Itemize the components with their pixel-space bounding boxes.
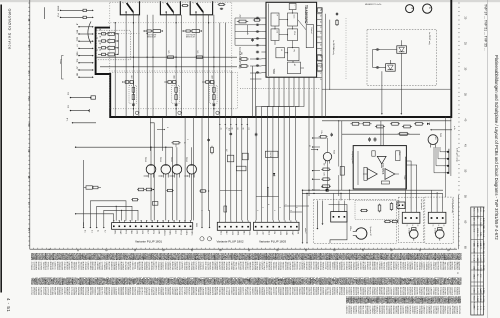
- svg-text:481: 481: [434, 137, 436, 140]
- svg-text:Dem: Dem: [292, 15, 294, 19]
- svg-text:1568: 1568: [173, 75, 175, 79]
- amp inner block vref: [372, 151, 375, 156]
- svg-text:7-4: 7-4: [476, 298, 478, 301]
- svg-text:D540471: D540471: [129, 287, 131, 296]
- speaker feed line lower: [302, 192, 443, 194]
- svg-text:T129073: T129073: [39, 287, 41, 296]
- svg-text:D078996: D078996: [197, 262, 199, 271]
- svg-text:D684158: D684158: [425, 287, 427, 296]
- svg-text:T207287: T207287: [42, 262, 44, 271]
- svg-text:C143118: C143118: [425, 306, 427, 315]
- svg-text:C236233: C236233: [173, 287, 175, 296]
- svg-text:R320794: R320794: [319, 287, 321, 296]
- svg-text:R609491: R609491: [124, 287, 126, 296]
- svg-text:T394782: T394782: [420, 287, 422, 296]
- svg-text:R711460: R711460: [401, 287, 403, 296]
- svg-text:C792421: C792421: [202, 262, 204, 271]
- svg-text:D297023: D297023: [270, 262, 272, 271]
- pin table band 2 row A: [30, 278, 461, 286]
- svg-text:L931783: L931783: [131, 262, 133, 271]
- svg-text:D187151: D187151: [312, 262, 314, 271]
- svg-text:L711075: L711075: [42, 287, 44, 296]
- svg-text:SW15: SW15: [190, 230, 192, 235]
- svg-text:KOMB: KOMB: [476, 228, 478, 234]
- svg-text:B05: B05: [479, 290, 481, 293]
- svg-text:2-4: 2-4: [473, 258, 475, 261]
- svg-text:12: 12: [225, 128, 227, 130]
- svg-text:T113719: T113719: [180, 287, 182, 296]
- svg-text:D119852: D119852: [89, 262, 91, 271]
- svg-text:SDA: SDA: [76, 52, 79, 57]
- right frame segment: [458, 195, 460, 249]
- arrow into bus x338: [338, 121, 340, 122]
- svg-text:600 Ohm: 600 Ohm: [322, 187, 329, 189]
- svg-text:L428146: L428146: [173, 262, 175, 271]
- svg-text:C630170: C630170: [307, 287, 309, 296]
- svg-text:D985012: D985012: [110, 262, 112, 271]
- svg-text:D939471: D939471: [277, 287, 279, 296]
- resistor R1566: [131, 199, 132, 201]
- svg-text:T901073: T901073: [293, 287, 295, 296]
- long rail B to connector: [75, 147, 172, 220]
- junction dots on feed lines: [349, 190, 350, 191]
- svg-text:C549816: C549816: [145, 287, 147, 296]
- svg-text:1801: 1801: [195, 223, 197, 227]
- svg-text:ED2: ED2: [479, 274, 481, 277]
- svg-text:R090048: R090048: [390, 306, 392, 315]
- svg-text:N10: N10: [228, 128, 230, 131]
- svg-text:L403753: L403753: [169, 262, 171, 271]
- IC inner block: demod: [288, 13, 298, 26]
- svg-text:R454185: R454185: [171, 262, 173, 271]
- svg-text:L221677: L221677: [242, 287, 244, 296]
- svg-text:C518932: C518932: [143, 262, 145, 271]
- svg-text:for 2 speakers: for 2 speakers: [420, 199, 423, 210]
- resistor R613: [375, 126, 377, 128]
- left ruler line: [29, 0, 31, 249]
- svg-text:C485146: C485146: [434, 306, 436, 315]
- svg-text:R506015: R506015: [284, 262, 286, 271]
- IC inner block: video: [271, 29, 279, 41]
- svg-text:D958154: D958154: [392, 306, 394, 315]
- svg-text:L357389: L357389: [444, 287, 446, 296]
- svg-text:L478652: L478652: [180, 262, 182, 271]
- svg-text:D017434: D017434: [204, 262, 206, 271]
- svg-text:RT8: RT8: [152, 230, 154, 233]
- wire below bus x150: [149, 117, 151, 151]
- arrow left w7a: [431, 129, 452, 131]
- svg-text:C599516: C599516: [58, 262, 60, 271]
- svg-text:C127576: C127576: [369, 306, 371, 315]
- svg-text:T260: T260: [272, 69, 275, 75]
- svg-text:D169457: D169457: [380, 287, 382, 296]
- svg-text:T517151: T517151: [326, 287, 328, 296]
- svg-text:T005359: T005359: [413, 306, 415, 315]
- svg-text:R461087: R461087: [399, 262, 401, 271]
- svg-text:C995541: C995541: [371, 306, 373, 315]
- dashed box: speaker B: [425, 197, 453, 243]
- svg-text:L687808: L687808: [230, 262, 232, 271]
- svg-text:T340016: T340016: [150, 287, 152, 296]
- termination unit 1569: [203, 81, 204, 83]
- svg-text:RT13: RT13: [179, 230, 181, 234]
- svg-text:F 4-6: F 4-6: [482, 266, 484, 270]
- svg-text:T966274: T966274: [133, 287, 135, 296]
- svg-text:D331921: D331921: [347, 306, 349, 315]
- svg-text:MUTE: MUTE: [269, 152, 271, 158]
- long rail A (IF) to connector: [150, 123, 154, 221]
- resistor R615: [402, 126, 404, 128]
- resistor R1605 MUTE: [265, 151, 278, 157]
- svg-text:11: 11: [319, 38, 321, 40]
- svg-text:C559550: C559550: [159, 262, 161, 271]
- svg-text:TDA7056B: TDA7056B: [381, 163, 384, 175]
- resistor R614: [390, 123, 392, 125]
- svg-text:D861089: D861089: [91, 262, 93, 271]
- svg-text:C830350: C830350: [455, 306, 457, 315]
- svg-text:T212799: T212799: [249, 287, 251, 296]
- svg-text:C647826: C647826: [39, 262, 41, 271]
- resistor R175: [166, 56, 168, 58]
- svg-text:D733371: D733371: [77, 262, 79, 271]
- wire bundle: switch outputs down to bus: [115, 15, 225, 117]
- svg-text:R889726: R889726: [373, 262, 375, 271]
- svg-text:L514568: L514568: [300, 262, 302, 271]
- svg-text:T803944: T803944: [98, 262, 100, 271]
- capacitor C632: [331, 133, 333, 134]
- resistor R182: [218, 4, 219, 6]
- svg-text:C580569: C580569: [352, 262, 354, 271]
- svg-text:L331367: L331367: [246, 262, 248, 271]
- svg-text:D746545: D746545: [234, 287, 236, 296]
- svg-text:Tuner: Tuner: [59, 59, 61, 64]
- IC inner left rail: [268, 4, 270, 77]
- svg-text:T461122: T461122: [51, 262, 53, 271]
- svg-text:WS4: WS4: [237, 231, 239, 235]
- svg-text:GN3: GN3: [231, 231, 233, 235]
- connector PLUP 1803 row: [254, 222, 300, 230]
- svg-text:R274535: R274535: [150, 262, 152, 271]
- wires from IC left column down to bus: [252, 66, 254, 117]
- svg-text:R089461: R089461: [366, 262, 368, 271]
- svg-text:C976879: C976879: [328, 287, 330, 296]
- resistor R1569b: [199, 190, 200, 192]
- svg-text:GN1: GN1: [256, 231, 258, 235]
- svg-text:C306475: C306475: [430, 262, 432, 271]
- svg-text:C986350: C986350: [37, 287, 39, 296]
- svg-text:L091560: L091560: [333, 287, 335, 296]
- resistor R1608: [224, 206, 227, 212]
- pin reference circles above bus: [135, 111, 219, 114]
- junction dots on rails: [133, 57, 215, 68]
- svg-text:T620: T620: [439, 133, 441, 137]
- svg-text:T637318: T637318: [84, 287, 86, 296]
- svg-text:B2: B2: [456, 282, 458, 284]
- svg-text:bl: bl: [411, 225, 413, 227]
- svg-text:L728472: L728472: [364, 287, 366, 296]
- svg-text:F 4-G09: F 4-G09: [482, 296, 484, 302]
- svg-text:bn: bn: [431, 225, 433, 227]
- svg-text:c: c: [202, 238, 204, 239]
- reference table columns: [471, 207, 484, 315]
- reference bubble CO1: [318, 8, 323, 13]
- svg-text:65: 65: [464, 246, 467, 249]
- small box K1567: [153, 202, 158, 206]
- svg-text:L270475: L270475: [260, 262, 262, 271]
- svg-text:SB: SB: [242, 128, 244, 130]
- reference table texts: [473, 207, 484, 311]
- resistor R633: [321, 168, 323, 170]
- resistor R1604: [242, 153, 248, 160]
- svg-text:R230470: R230470: [352, 287, 354, 296]
- svg-text:L890863: L890863: [192, 287, 194, 296]
- svg-text:R905587: R905587: [378, 287, 380, 296]
- svg-text:F2: F2: [456, 262, 458, 264]
- svg-text:C114050: C114050: [115, 287, 117, 296]
- svg-text:RT3: RT3: [125, 230, 127, 233]
- IC internal connection arrows: [275, 10, 306, 68]
- svg-text:8: 8: [166, 127, 168, 128]
- svg-text:D518946: D518946: [397, 287, 399, 296]
- svg-text:R598335: R598335: [284, 287, 286, 296]
- svg-text:D084642: D084642: [446, 287, 448, 296]
- svg-text:gn: gn: [417, 225, 419, 227]
- svg-text:BESTÜCKT: BESTÜCKT: [186, 35, 195, 38]
- svg-text:F 4-63/TV: F 4-63/TV: [479, 255, 481, 263]
- amp inner resistor left: [364, 167, 367, 180]
- svg-text:T910372: T910372: [79, 262, 81, 271]
- svg-text:L609319: L609319: [286, 287, 288, 296]
- svg-text:+5V: +5V: [76, 66, 78, 70]
- svg-text:F 4-ED: F 4-ED: [479, 207, 481, 213]
- svg-text:AU3: AU3: [267, 231, 270, 235]
- svg-text:30: 30: [190, 249, 193, 252]
- svg-text:2: 2: [256, 210, 258, 211]
- diode D1607: [273, 173, 275, 176]
- svg-text:D398066: D398066: [314, 262, 316, 271]
- svg-text:13: 13: [319, 26, 321, 28]
- wires to IC lower left pins: [250, 59, 261, 79]
- capacitor C1557: [208, 138, 210, 139]
- svg-text:175: 175: [167, 51, 169, 54]
- svg-text:T598253: T598253: [321, 262, 323, 271]
- svg-text:R255937: R255937: [65, 287, 67, 296]
- svg-text:C487929: C487929: [190, 262, 192, 271]
- cluster stub dots: [312, 137, 320, 190]
- dashed rail below IC: [240, 88, 320, 90]
- horizontal link wires lower middle: [220, 191, 309, 213]
- svg-text:C754054: C754054: [122, 262, 124, 271]
- svg-text:C253444: C253444: [202, 287, 204, 296]
- IC bottom pin stubs: [269, 77, 314, 90]
- svg-text:R933221: R933221: [296, 262, 298, 271]
- svg-text:IF 1: IF 1: [66, 118, 68, 121]
- svg-text:SW11: SW11: [168, 230, 170, 235]
- svg-text:PLL: PLL: [293, 31, 295, 35]
- right ruler numbers: [464, 17, 467, 250]
- svg-text:5: 5: [47, 249, 50, 251]
- svg-text:D537736: D537736: [289, 287, 291, 296]
- svg-text:C900893: C900893: [422, 262, 424, 271]
- right margin separator line: [487, 0, 489, 318]
- resistor pair lower right: [384, 221, 385, 223]
- svg-text:T395116: T395116: [444, 306, 446, 315]
- svg-text:C241146: C241146: [199, 262, 201, 271]
- svg-text:D657441: D657441: [451, 262, 453, 271]
- svg-text:T1561: T1561: [159, 157, 161, 162]
- svg-text:D882991: D882991: [333, 262, 335, 271]
- svg-text:F3: F3: [456, 272, 458, 274]
- svg-text:D067669: D067669: [206, 287, 208, 296]
- svg-text:D684604: D684604: [328, 262, 330, 271]
- svg-text:T588618: T588618: [197, 287, 199, 296]
- svg-text:ta Plug-Pro only: ta Plug-Pro only: [455, 148, 458, 162]
- svg-text:20: 20: [133, 249, 136, 252]
- horizontal rail y89: [322, 88, 451, 90]
- svg-text:T981549: T981549: [260, 287, 262, 296]
- svg-text:T160417: T160417: [347, 287, 349, 296]
- svg-text:T660051: T660051: [394, 306, 396, 315]
- arrow down to bus from R262: [247, 34, 249, 35]
- svg-text:L513617: L513617: [143, 287, 145, 296]
- svg-text:4-61: 4-61: [482, 234, 484, 237]
- svg-text:C964151: C964151: [61, 287, 63, 296]
- svg-text:T795362: T795362: [404, 262, 406, 271]
- svg-text:D620453: D620453: [392, 262, 394, 271]
- svg-text:D144727: D144727: [383, 306, 385, 315]
- svg-text:L710630: L710630: [195, 262, 197, 271]
- svg-text:D295412: D295412: [86, 287, 88, 296]
- svg-text:C520166: C520166: [437, 287, 439, 296]
- svg-text:white 2: white 2: [304, 228, 307, 233]
- dashed vertical left of TEXT box: [345, 18, 347, 80]
- svg-text:D727011: D727011: [185, 287, 187, 296]
- svg-text:T931531: T931531: [75, 262, 77, 271]
- svg-text:R864280: R864280: [105, 287, 107, 296]
- svg-text:047: 047: [322, 163, 324, 166]
- svg-text:+A: +A: [220, 128, 223, 131]
- dashed separator vertical: [231, 71, 233, 117]
- svg-text:d: d: [210, 238, 212, 239]
- pin table band 1 row B: [30, 262, 460, 271]
- resistor R1542 on rail B: [171, 142, 173, 144]
- svg-text:D335799: D335799: [232, 287, 234, 296]
- IC right pin numbers: [319, 9, 321, 80]
- svg-text:9: 9: [295, 207, 297, 208]
- vertical feeder x83: [83, 160, 85, 227]
- svg-text:R116427: R116427: [246, 287, 248, 296]
- switch S3: [190, 1, 212, 15]
- svg-text:4: 4: [267, 204, 269, 205]
- connector circle a: [406, 5, 414, 13]
- svg-text:R618703: R618703: [223, 262, 225, 271]
- svg-text:C145263: C145263: [244, 287, 246, 296]
- svg-text:C469409: C469409: [126, 287, 128, 296]
- svg-text:D090772: D090772: [385, 306, 387, 315]
- resistor R611: [350, 123, 352, 125]
- svg-text:100n: 100n: [320, 131, 322, 135]
- svg-text:L828358: L828358: [427, 306, 429, 315]
- svg-text:T841638: T841638: [331, 287, 333, 296]
- svg-text:L652969: L652969: [68, 262, 70, 271]
- svg-text:R699358: R699358: [35, 262, 37, 271]
- terminal labels row: [84, 230, 106, 233]
- wires down right side: [446, 117, 451, 197]
- svg-text:L601654: L601654: [265, 287, 267, 296]
- svg-text:10: 10: [319, 44, 321, 46]
- svg-text:43: 43: [99, 49, 101, 51]
- svg-text:L460126: L460126: [204, 287, 206, 296]
- svg-text:R221787: R221787: [108, 262, 110, 271]
- svg-text:for 2 speakers only: for 2 speakers only: [451, 199, 454, 213]
- main board outline bus (thick): [96, 0, 452, 117]
- dashed box: speaker A: [398, 197, 423, 242]
- svg-text:L692868: L692868: [213, 262, 215, 271]
- svg-text:R842779: R842779: [93, 262, 95, 271]
- svg-text:T490500: T490500: [404, 306, 406, 315]
- svg-text:6: 6: [278, 207, 280, 208]
- connector PLUP 1801 row: [112, 223, 193, 230]
- svg-text:C565616: C565616: [155, 287, 157, 296]
- svg-text:C702814: C702814: [30, 262, 32, 271]
- svg-text:1567: 1567: [130, 75, 132, 79]
- svg-text:D796424: D796424: [124, 262, 126, 271]
- svg-text:D81555: D81555: [459, 278, 461, 286]
- svg-text:L480553: L480553: [303, 262, 305, 271]
- svg-text:L227161: L227161: [152, 262, 154, 271]
- capacitor C321: [336, 12, 338, 13]
- transistor T630: [323, 152, 331, 160]
- svg-text:R557590: R557590: [89, 287, 91, 296]
- svg-text:D022551: D022551: [354, 306, 356, 315]
- resistor R1568b: [166, 190, 167, 192]
- left margin black bar: [0, 5, 2, 293]
- svg-text:T531883: T531883: [286, 262, 288, 271]
- svg-text:RT: RT: [247, 128, 249, 130]
- svg-text:T726922: T726922: [439, 287, 441, 296]
- amp input triangle: [377, 156, 386, 164]
- svg-text:T796101: T796101: [46, 262, 48, 271]
- resistor R267: [239, 65, 241, 67]
- svg-text:D017464: D017464: [256, 262, 258, 271]
- resistor group R4068 (nicht bestueckt): [182, 30, 183, 32]
- svg-text:R975696: R975696: [448, 262, 450, 271]
- svg-text:4-61: 4-61: [482, 218, 484, 221]
- svg-text:R997130: R997130: [227, 262, 229, 271]
- switch S1: [120, 1, 139, 15]
- svg-text:R158025: R158025: [82, 287, 84, 296]
- svg-text:T649074: T649074: [314, 287, 316, 296]
- svg-text:R231609: R231609: [190, 287, 192, 296]
- svg-text:R431940: R431940: [439, 306, 441, 315]
- svg-text:4k7: 4k7: [225, 149, 227, 152]
- svg-text:C144117: C144117: [162, 262, 164, 271]
- IC right pin stubs: [317, 8, 322, 78]
- svg-text:GRUNDIG Service: GRUNDIG Service: [7, 9, 12, 51]
- svg-text:R312105: R312105: [390, 262, 392, 271]
- wire bundle: bus to connector right pins: [185, 117, 209, 220]
- svg-text:L231437: L231437: [237, 262, 239, 271]
- switch S2: [160, 1, 180, 15]
- svg-text:Chassis CUC: Chassis CUC: [473, 222, 475, 233]
- svg-text:D25027: D25027: [459, 253, 461, 261]
- svg-text:+B: +B: [76, 23, 78, 26]
- svg-text:C923629: C923629: [392, 287, 394, 296]
- connector 3pin inside left dashed box: [331, 212, 347, 222]
- svg-text:45: 45: [275, 249, 278, 252]
- svg-text:7: 7: [319, 61, 321, 62]
- svg-text:VI8: VI8: [297, 231, 299, 234]
